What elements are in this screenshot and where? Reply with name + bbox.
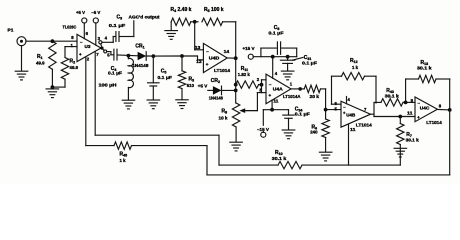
resistor R43 30.1k (374, 88, 415, 106)
label +5V (198, 83, 208, 88)
wire output down (449, 110, 451, 175)
pin 14 label (224, 49, 230, 54)
diode CR1 1N4148 (132, 43, 153, 68)
pin 3 stub (259, 88, 266, 93)
pin 6 label (335, 101, 338, 106)
resistor R13 30.1k feedback (406, 60, 450, 110)
inductor L1 100uH (99, 56, 134, 100)
wire node to U4D pin 13 (195, 22, 204, 50)
svg-text:0.1 μF: 0.1 μF (302, 61, 317, 66)
ground under L1 (122, 100, 135, 109)
resistor R7 30.1k (397, 117, 420, 166)
wire to U4B pin 5 (326, 109, 341, 111)
node CR2 cathode (234, 89, 238, 93)
node R3 (180, 54, 184, 58)
svg-text:30.1 k: 30.1 k (406, 138, 420, 143)
pin 4 output circle (99, 41, 102, 47)
node R1 top (51, 39, 55, 43)
svg-text:+: + (206, 62, 209, 67)
svg-text:TL026C: TL026C (63, 25, 77, 31)
svg-text:AGC'd output: AGC'd output (129, 15, 160, 20)
node R1/R2 bottom (51, 85, 55, 89)
svg-text:+15 V: +15 V (243, 46, 256, 51)
wire node to R2 bottom (52, 86, 65, 88)
terminal +15V (243, 46, 297, 59)
capacitor C34 0.1uF (272, 106, 310, 129)
wire R2 to U3 pin 1 (65, 47, 77, 58)
ground under C5 (147, 100, 160, 109)
svg-text:10 k: 10 k (219, 115, 229, 120)
node U4C output (448, 108, 452, 112)
svg-text:510: 510 (187, 83, 195, 88)
pin 11 label U4C (407, 111, 413, 116)
capacitor C3 0.1uF (102, 15, 134, 43)
resistor 20k (291, 85, 326, 99)
ground R4 left (165, 22, 178, 40)
op-amp U4C LT1014 (415, 97, 442, 125)
svg-text:0.1 μF: 0.1 μF (158, 75, 173, 80)
capacitor C31 0.1uF (280, 55, 317, 71)
svg-text:1.82 k: 1.82 k (238, 72, 251, 77)
U4A input riser (261, 80, 263, 93)
U4B output jog (371, 103, 375, 117)
wire to U4D pin 12 (182, 56, 203, 60)
pin 7 label (96, 52, 99, 57)
svg-text:100 μH: 100 μH (99, 82, 118, 87)
resistor R6 240 (310, 119, 329, 152)
pin 7 label (364, 107, 367, 112)
node pin 11 U4A (270, 108, 274, 112)
pin 11 row U4C (374, 116, 415, 118)
wire R45 to bottom rail (132, 146, 208, 175)
node R11 branch (234, 83, 238, 87)
svg-text:14: 14 (224, 49, 230, 54)
U4A output node (298, 87, 302, 91)
resistor R4 2.49k (171, 7, 192, 26)
svg-text:P1: P1 (8, 28, 14, 34)
node CR1/C5 (152, 54, 156, 58)
U3 pin 7 wire (95, 52, 219, 165)
node R7 (398, 115, 402, 119)
resistor R5 100k (202, 7, 236, 26)
node pin 9 (404, 98, 414, 104)
ground under R8 (230, 142, 243, 151)
capacitor C8 0.1uF (261, 25, 297, 57)
op-amp U4A LT1014 (266, 74, 301, 104)
svg-text:LT1014: LT1014 (356, 123, 373, 128)
svg-text:11: 11 (407, 111, 413, 116)
resistor R10 30.1k (272, 150, 302, 169)
svg-text:0.1 μF: 0.1 μF (108, 71, 122, 76)
svg-text:12: 12 (196, 59, 202, 64)
pin 5 label (107, 53, 110, 58)
node R4/R5 (191, 20, 198, 24)
node pin 5 branch (324, 108, 328, 112)
wire P1 to ground (21, 46, 23, 71)
svg-text:0.1 μF: 0.1 μF (295, 112, 310, 117)
ground under R3 (176, 100, 188, 109)
U3 output node (100, 47, 103, 50)
pin 3 label (98, 36, 101, 41)
pin 11 stub U4A (272, 98, 279, 109)
bottom rail (207, 174, 450, 176)
node R11/U4A (260, 83, 264, 87)
node C4/CR1/L1 (126, 54, 130, 58)
wire U4D output (227, 57, 236, 59)
pin 5 output circle (103, 49, 107, 53)
node pin4 rail (271, 55, 275, 59)
wire riser to wiper (245, 93, 262, 111)
pin 2 stub (257, 77, 266, 82)
resistor R3 510 (178, 56, 194, 100)
op-amp U4D LT1014 (203, 43, 230, 73)
wire 20k down (325, 89, 327, 119)
svg-text:20 k: 20 k (310, 94, 320, 99)
pin 8 label (439, 103, 442, 108)
svg-text:11: 11 (273, 98, 279, 103)
svg-text:U4A: U4A (273, 86, 284, 91)
pin 6 label (86, 31, 89, 36)
svg-text:R5 100 k: R5 100 k (204, 7, 224, 13)
svg-text:30.1 k: 30.1 k (385, 93, 400, 98)
svg-text:–5 V: –5 V (91, 10, 101, 15)
svg-text:1 k: 1 k (120, 158, 127, 163)
svg-text:1N4148: 1N4148 (209, 95, 224, 100)
node C31 rail (286, 55, 290, 59)
svg-text:240: 240 (310, 130, 318, 135)
svg-text:U4B: U4B (346, 113, 356, 118)
U3 pin 2 wire (86, 57, 114, 146)
potentiometer R8 10k (219, 103, 258, 142)
svg-text:+5 V: +5 V (76, 10, 86, 15)
pin 13 label (195, 45, 201, 50)
svg-text:0.1 μF: 0.1 μF (109, 23, 126, 28)
pin 4 stub U4B (347, 97, 351, 104)
wire output node down (235, 58, 237, 103)
pin 12 label (196, 59, 202, 64)
U4C output (437, 108, 449, 111)
wire node to R3 node (153, 55, 182, 57)
svg-text:+5 V: +5 V (198, 83, 208, 88)
pin 1 label (71, 43, 74, 48)
svg-text:U3: U3 (85, 44, 91, 49)
svg-text:0.1 μF: 0.1 μF (269, 30, 284, 35)
svg-text:+: + (269, 93, 272, 98)
svg-text:13: 13 (195, 45, 201, 50)
ground under C31 (281, 71, 294, 80)
diode CR2 1N4148 (208, 78, 236, 100)
terminal -5V (91, 10, 101, 45)
wire P1 to U3 pin 8 (26, 40, 77, 42)
ground under C34 (282, 130, 295, 139)
resistor R12 1k feedback (332, 58, 377, 104)
svg-text:LT1014: LT1014 (214, 68, 231, 73)
ground under R6 (319, 152, 332, 161)
svg-text:U4D: U4D (209, 56, 220, 61)
svg-text:+: + (79, 52, 82, 57)
ground under P1 (15, 71, 28, 80)
pin 2 label (87, 56, 90, 61)
svg-text:1N4148: 1N4148 (132, 63, 149, 68)
svg-text:U4C: U4C (420, 106, 430, 111)
AGC output stub (129, 15, 160, 37)
op-amp U3 TL026C (63, 25, 102, 62)
node U4D output (234, 56, 238, 60)
pin 11 stub U4B (349, 125, 357, 166)
resistor R2 49.9 (61, 58, 78, 88)
pin 4 stub U4A (273, 57, 278, 78)
R10 rail left (219, 164, 278, 166)
svg-text:49.9: 49.9 (36, 61, 45, 66)
svg-text:49.9: 49.9 (70, 65, 79, 70)
svg-text:R4 2.49 k: R4 2.49 k (171, 7, 192, 13)
wire pin 6 (332, 103, 342, 105)
connector P1 (8, 28, 27, 46)
R10 rail right (302, 164, 400, 166)
terminal +5V (76, 10, 87, 39)
svg-text:LT1014: LT1014 (426, 120, 442, 125)
resistor R11 1.82k (236, 66, 262, 88)
svg-text:11: 11 (350, 127, 356, 132)
wire R5 to output node (235, 22, 237, 58)
ground under R1/R2 (46, 89, 59, 98)
op-amp U4B LT1014 (341, 101, 372, 127)
svg-text:LT1014A: LT1014A (283, 94, 301, 99)
pin 5 label (335, 107, 338, 112)
terminal -15V (257, 110, 272, 138)
resistor R45 1k (114, 142, 132, 163)
pin 4 label (105, 36, 108, 41)
svg-text:1 k: 1 k (352, 65, 359, 70)
capacitor C4 0.1uF (107, 49, 138, 75)
pin 8 label (71, 35, 74, 40)
svg-text:30.1 k: 30.1 k (417, 66, 432, 71)
capacitor C5 0.1uF (148, 56, 173, 100)
wire R1 bottom (51, 69, 53, 87)
ground R7 (394, 148, 407, 157)
resistor R1 49.9 (36, 41, 56, 69)
svg-text:30.1 k: 30.1 k (272, 156, 287, 161)
